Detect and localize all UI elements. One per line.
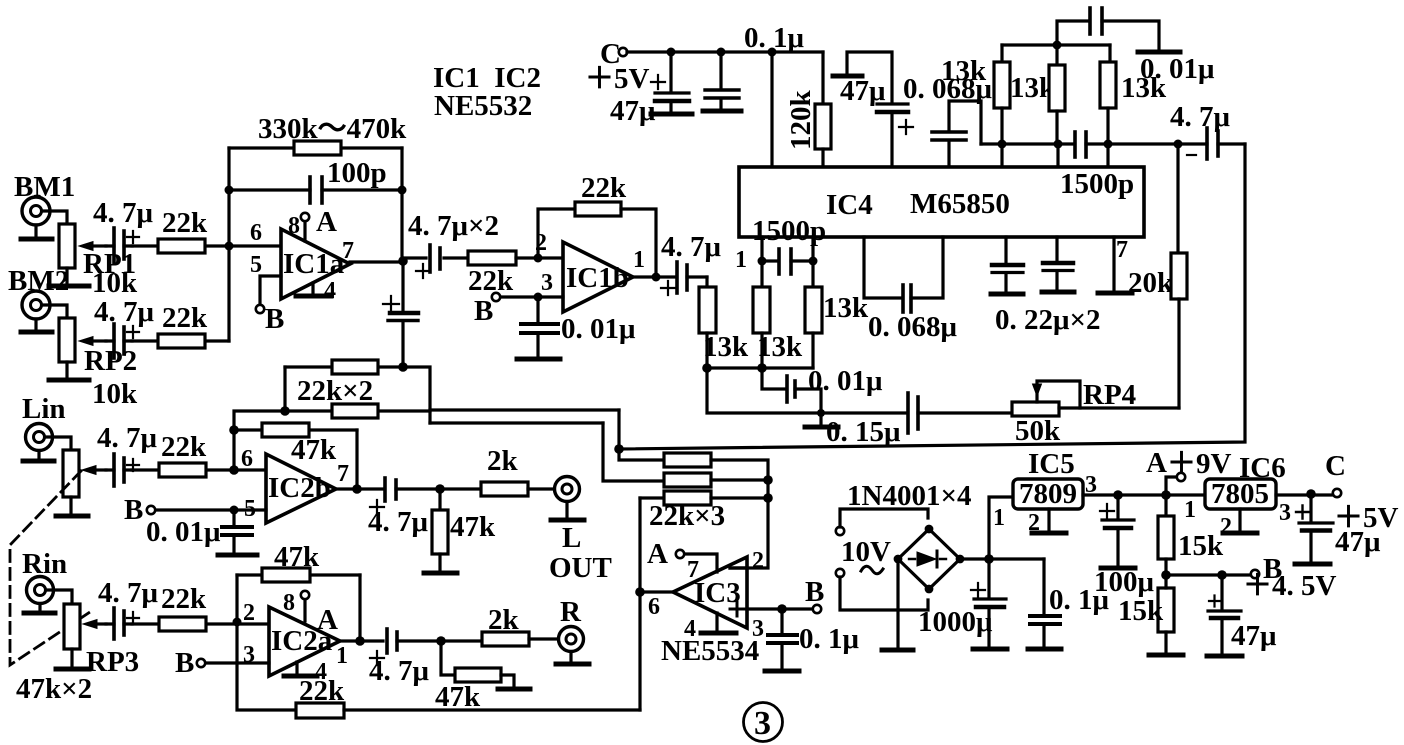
capacitor 4.7u IC2b out [370,478,481,514]
svg-text:15k: 15k [1118,595,1164,627]
svg-text:RP4: RP4 [1083,379,1136,411]
ground Lin [23,451,54,461]
capacitor 4.7u BM1 [106,228,139,263]
capacitor 4.7u Rin [106,608,139,639]
wire mic line y423 [430,421,603,424]
wire pin6 leg IC2b [232,430,235,470]
wire Rb node to IC4 [1056,144,1059,167]
resistor 22k x2 first [285,360,403,374]
svg-text:1: 1 [1184,497,1196,523]
svg-text:IC1a: IC1a [283,248,345,280]
wire IC6 out [1276,493,1333,496]
wire bridge plus [960,557,1044,560]
op-amp IC1b [563,242,633,312]
capacitor 0.068u IC4 top [932,101,981,167]
regulator IC6 7805 [1205,478,1276,510]
wire RP2 bottom [65,362,68,378]
jack BM2 [22,291,50,319]
svg-text:7: 7 [687,557,699,583]
wire BM1 jack to RP1 [42,211,67,224]
svg-text:4. 7μ: 4. 7μ [93,197,154,229]
svg-text:13k: 13k [757,331,803,363]
resistor 22k BM2 [132,334,229,348]
capacitor 4.7u IC1b out [661,262,707,295]
svg-text:B: B [474,295,493,327]
svg-text:A: A [317,604,338,636]
resistor 13k Ra [994,45,1010,144]
svg-text:50k: 50k [1015,415,1061,447]
svg-text:1: 1 [633,247,645,273]
wire to 13k left top [705,277,708,287]
capacitor 47u IC4 [877,104,913,167]
jack R OUT [559,627,584,652]
wire RP4 right to 20k [1059,406,1179,409]
wire AC upper to bridge [840,509,928,527]
pin 4 ground IC1a [296,283,331,296]
svg-text:1: 1 [336,643,348,669]
svg-text:4. 7μ: 4. 7μ [97,422,158,454]
resistor 13k Rleft [699,287,716,368]
svg-text:47k×2: 47k×2 [16,673,92,705]
resistor 47k feedback IC2b [234,423,357,437]
potentiometer RP2 [59,318,106,362]
wire Ra node to 0.068u [981,142,1002,145]
svg-text:4. 7μ: 4. 7μ [1170,101,1231,133]
svg-text:NE5534: NE5534 [661,635,759,667]
ground Lin pot [56,514,88,519]
node delay out [1174,140,1183,149]
svg-text:4. 7μ: 4. 7μ [369,655,430,687]
node IC3 out [635,587,645,597]
capacitor 0.22u B [1043,237,1073,290]
wire pin2 into IC1b [538,256,563,259]
resistor 47k feedback IC2a [237,568,360,582]
capacitor 100p feedback [229,177,402,203]
ground 47u 5V [1295,562,1330,567]
svg-text:B: B [124,494,143,526]
capacitor 0.1u PSU [1030,559,1060,647]
wire +5V rail [627,50,823,53]
resistor 22k Rin [132,617,269,631]
capacitor 0.01u delay [762,368,821,413]
pin 8 terminal A IC2a [301,591,309,621]
node junction pin2 IC1b [534,254,543,263]
ground 47u IC4 [833,52,892,103]
svg-text:2k: 2k [487,445,519,477]
svg-text:0. 01μ: 0. 01μ [561,313,636,345]
svg-text:47k: 47k [435,681,481,713]
svg-text:NE5532: NE5532 [434,90,532,122]
svg-text:OUT: OUT [549,552,612,584]
resistor 2k L [481,482,554,496]
svg-text:R: R [560,596,582,628]
svg-text:100μ: 100μ [1094,566,1155,598]
capacitor 47u rail [651,52,689,112]
svg-text:22k: 22k [161,583,207,615]
resistor 22k x3 third [640,491,768,505]
wire pin5 to B [260,276,281,304]
ground BM2 [21,319,52,332]
svg-text:A: A [647,538,668,570]
ground BM1 [21,225,52,239]
terminal B bias [1251,570,1259,578]
capacitor 0.15u [908,393,1012,433]
ground 1000u [973,647,1007,652]
ground RP2 [49,378,89,383]
wire L signal line y410 [430,408,619,411]
wire Lin jack to pot [45,437,71,450]
svg-text:22k: 22k [581,172,627,204]
resistor 22k Lin [132,463,265,477]
ground L OUT [551,502,584,520]
wire 22kx2 to pin6 leg [234,411,285,430]
node rail/0.1u [717,48,726,57]
svg-text:2: 2 [1220,514,1232,540]
resistor 13k Rright [805,261,822,368]
node IC2a out/47k [355,636,365,646]
ground 0.1u IC3 [765,669,799,674]
svg-text:5: 5 [250,252,262,278]
ground 0.1u PSU [1028,647,1061,652]
node divider mid [1161,570,1171,580]
capacitor 4.7u Lin [106,454,139,486]
node rail/IC4 pin [768,48,777,57]
svg-text:1: 1 [993,505,1005,531]
ground 100u [1101,566,1135,571]
svg-text:6: 6 [250,220,262,246]
svg-text:20k: 20k [1128,267,1174,299]
ground pin2 IC6 [1223,509,1257,533]
node Rb bottom [1054,140,1063,149]
svg-text:4: 4 [315,659,327,685]
svg-text:3: 3 [1279,500,1291,526]
node pin2 IC2a [233,618,242,627]
svg-text:4. 7μ: 4. 7μ [661,231,722,263]
svg-text:1: 1 [735,247,747,273]
capacitor 0.068u lower [903,237,943,312]
wire divider to B [1166,573,1251,576]
terminal B IC2a [197,659,205,667]
wire IC3 out down to mix line [638,592,641,710]
wire y144 to 4.7u [1108,142,1207,145]
wire node line y144 [1002,142,1058,145]
terminal B IC3 [813,605,821,613]
wire pin3 from B [500,295,563,298]
node pin6 IC2b [229,465,239,475]
wire feedback right leg IC1b [621,209,656,277]
capacitor electrolytic below IC1a output [383,296,418,363]
svg-text:4. 7μ: 4. 7μ [98,577,159,609]
capacitor 0.22u A [992,237,1023,292]
resistor 22k BM1 [132,239,229,253]
resistor 15k lower [1158,575,1174,653]
wire feedback line y413 [707,368,906,413]
jack L OUT [555,477,580,502]
capacitor 4.7u IC2a out [370,629,482,665]
svg-text:47μ: 47μ [1335,526,1381,558]
wire output down to cap [401,261,404,312]
resistor 13k Rb [1049,45,1065,144]
svg-text:22k: 22k [162,207,208,239]
wire mic drop x603 [603,423,664,481]
svg-text:1N4001×4: 1N4001×4 [847,480,971,512]
wire pin3 from B [205,661,269,664]
ground 47k shunt L [424,571,457,576]
wire Ra node to IC4 [1000,144,1003,167]
resistor 20k [1171,253,1187,408]
ground 47k shunt R [498,687,530,692]
node rail/47u [667,48,676,57]
terminal AC upper [836,527,844,535]
IC4 box M65850 [739,167,1144,247]
capacitor 0.1u rail [705,52,739,109]
node IC1a output junction [398,256,408,266]
wire bridge minus to ground [896,563,899,648]
ground 47u rail [651,112,692,117]
wire IC5 out rail [1083,493,1205,496]
svg-text:IC1b: IC1b [566,262,629,294]
resistor 22k x3 second [664,473,768,487]
svg-text:7: 7 [342,238,354,264]
wire rail corner to 120k [821,52,824,104]
svg-text:13k: 13k [823,292,869,324]
wire Lin pot bottom [69,497,72,514]
wire IC1a output [350,260,402,263]
wire 22k mix leg IC2a [237,622,296,710]
svg-text:47μ: 47μ [610,95,656,127]
svg-text:1500p: 1500p [1060,168,1134,200]
node IC2b out/47k [352,484,362,494]
terminal C supply [619,48,627,56]
label tilde [861,566,883,574]
wire feedback right leg [400,148,403,261]
svg-text:Lin: Lin [22,393,66,425]
wire IC4 pin7 down [1112,237,1115,291]
svg-text:B: B [805,576,824,608]
node 100u tap [1113,490,1123,500]
wire rail down to IC4 [770,52,773,167]
svg-text:A: A [316,206,337,238]
node junction 47k shunt L [435,484,445,494]
terminal B IC2b [147,506,155,514]
node 9V tap [1161,490,1171,500]
jack Rin [27,577,54,604]
wire 47k right leg IC2a [358,575,361,641]
svg-text:22k×2: 22k×2 [297,375,373,407]
page number 3 [744,703,783,743]
wire AC lower to bridge [840,577,928,610]
terminal B IC1b [492,293,500,301]
node junction bus/100p [225,186,234,195]
terminal AC lower [836,569,844,577]
svg-text:IC4: IC4 [826,189,873,221]
terminal C out [1333,489,1341,497]
svg-text:7: 7 [337,461,349,487]
svg-text:1000μ: 1000μ [918,606,993,638]
wire RP3 bottom [70,649,73,667]
svg-text:M65850: M65850 [910,188,1010,220]
svg-text:2: 2 [535,230,547,256]
svg-text:15k: 15k [1178,530,1224,562]
wire IC2a output [340,639,383,642]
wire pin5 from B [155,508,266,511]
svg-text:0. 068μ: 0. 068μ [868,311,958,343]
wire summing bus x229 [227,148,230,341]
wire 20k top leg [1176,144,1179,253]
ground R OUT [556,652,589,664]
node 22kx3 right b [763,493,773,503]
wire IC3 out to apex [640,590,673,593]
svg-text:0. 01μ: 0. 01μ [1140,53,1215,85]
svg-text:47μ: 47μ [840,75,886,107]
resistor 15k upper [1158,495,1174,575]
terminal A +9V [1166,473,1185,495]
capacitor 1000u [971,559,1006,647]
wire IC4 pin1 down [760,237,763,261]
svg-text:B: B [175,647,194,679]
ground 0.01u IC2b [218,553,257,558]
resistor 13k Rc [1100,45,1116,144]
wire Rin jack to RP3 [46,590,72,604]
node junction 47k shunt R [436,636,446,646]
IC4 lower pin 0.068u loop [864,237,901,298]
svg-text:13k: 13k [703,331,749,363]
ground RP3 [56,667,89,672]
wire top link y45 [1002,43,1110,46]
wire L line drop x619 [617,410,620,449]
op-amp IC2b [266,454,336,523]
node B tap [1217,570,1227,580]
node junction IC1b output [652,273,661,282]
ground 47u bias [1207,654,1242,659]
svg-text:10V: 10V [841,536,891,568]
node pin1 [758,257,767,266]
ground 1500p top [1138,50,1180,55]
node link/1500p top [1053,41,1062,50]
op-amp IC3 [673,557,747,628]
resistor 22k feedback IC1b [575,202,621,216]
dashed gang link [10,471,90,665]
svg-text:L: L [562,522,581,554]
resistor 120k [815,104,831,167]
wire return line right leg [619,144,1245,449]
svg-text:10k: 10k [92,267,138,299]
capacitor 1500p top [1057,8,1159,50]
ground 0.01u IC1b [517,357,560,362]
node Rc bottom [1104,140,1113,149]
svg-text:7809: 7809 [1019,478,1077,510]
svg-text:47k: 47k [450,511,496,543]
jack BM1 [22,197,50,225]
svg-text:47μ: 47μ [1231,620,1277,652]
resistor 13k Rmid [753,261,770,368]
svg-text:3: 3 [754,705,771,742]
resistor 47k shunt L [432,489,448,571]
svg-text:B: B [265,303,284,335]
svg-text:22k: 22k [161,431,207,463]
ground 0.22u B [1042,290,1074,295]
resistor 330k-470k feedback [229,141,402,155]
node Rmid bottom [757,363,767,373]
wire IC1b output [633,275,674,278]
svg-text:0. 22μ×2: 0. 22μ×2 [995,304,1100,336]
op-amp IC1a [281,229,350,299]
resistor 47k shunt R [441,641,514,687]
node pin5 IC2b [230,506,239,515]
capacitor 47u 5V [1296,494,1333,562]
svg-text:4. 7μ×2: 4. 7μ×2 [408,210,499,242]
svg-text:IC5: IC5 [1028,448,1075,480]
wire 47k right leg IC2b [355,430,358,489]
svg-text:10k: 10k [92,378,138,410]
svg-text:3: 3 [541,270,553,296]
wire node to 22kx3 first [619,449,664,460]
wire IC2b output [336,487,382,490]
op-amp IC2a [269,607,340,676]
node mix L [614,444,624,454]
svg-text:0. 01μ: 0. 01μ [146,516,221,548]
node raw DC [984,554,994,564]
svg-text:100p: 100p [327,157,387,189]
svg-text:7805: 7805 [1211,478,1269,510]
potentiometer RP4 [1012,381,1080,416]
capacitor 47u bias [1208,575,1241,654]
svg-text:2: 2 [752,548,764,574]
capacitor 4.7u BM2 [106,324,139,358]
node Ra bottom [998,140,1007,149]
svg-text:47k: 47k [274,541,320,573]
wire pin6 input [229,244,281,247]
node 22kx3 right a [763,475,773,485]
svg-text:6: 6 [241,446,253,472]
ground 0.22u A [991,292,1023,297]
svg-text:8: 8 [288,213,300,239]
svg-text:22k: 22k [162,302,208,334]
jack Lin [26,424,53,451]
svg-text:0. 01μ: 0. 01μ [808,365,883,397]
capacitor 4.7u x2 series [403,245,468,278]
node pin3 bias [777,604,787,614]
svg-text:0. 15μ: 0. 15μ [826,416,901,448]
svg-text:13k: 13k [941,55,987,87]
svg-text:2: 2 [243,600,255,626]
wire IC3 out loop left [638,498,641,592]
svg-text:＋4. 5V: ＋4. 5V [1243,570,1337,602]
ground 0.01u delay [805,413,838,427]
wire pin2 leg IC3 [747,498,768,568]
node junction right leg/100p [398,186,407,195]
svg-text:7: 7 [1116,237,1128,263]
svg-text:47k: 47k [291,434,337,466]
node 5V out [1306,489,1316,499]
regulator IC5 7809 [1013,478,1083,510]
wire 47k feedback left leg IC2a [235,575,238,622]
node junction 22kx2 [398,362,408,372]
ground pin2 IC5 [1032,509,1066,533]
svg-text:4: 4 [324,278,336,304]
pin 4 ground IC2a [284,662,317,676]
resistor 22k series IC1b [468,251,538,265]
wire 22kx2 left leg [283,367,286,411]
wire mic branch down [403,367,430,423]
svg-text:0. 1μ: 0. 1μ [799,623,860,655]
potentiometer RP1 [59,224,106,268]
capacitor 1500p third [762,249,813,274]
potentiometer Lin [63,450,106,497]
svg-text:IC3: IC3 [694,577,741,609]
terminal B IC1a [256,305,264,313]
node 0.01u ground junction [817,409,825,417]
